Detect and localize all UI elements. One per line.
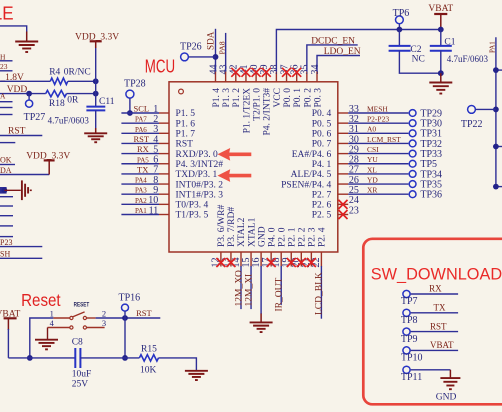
svg-text:PA4: PA4 [135,177,147,185]
svg-text:P4. 0: P4. 0 [267,227,277,247]
pin 30 [338,142,348,144]
wire VCC to VBAT rail [276,30,440,72]
resistor R18 [46,90,67,96]
no-ERC mark pin 24 [339,200,348,209]
wire DCDC_EN [307,45,358,72]
wire [496,69,502,71]
svg-text:P3. 7/RD#: P3. 7/RD# [227,207,237,247]
arrow (RXD highlight) [218,148,252,161]
svg-text:P0. 0: P0. 0 [283,88,293,108]
pin 26 [338,183,348,185]
junction [493,184,499,190]
pin 10 [159,203,169,205]
wire [398,24,400,30]
pin 41 [245,72,247,82]
pin 6 [159,163,169,165]
svg-text:P2-P23: P2-P23 [367,115,389,124]
pin 12 [220,252,222,267]
wire [0,246,42,248]
wire [0,205,13,207]
wire SDA [215,29,217,72]
svg-text:P0. 7: P0. 7 [312,140,332,150]
test point TP34 [409,171,416,178]
wire [476,108,496,110]
svg-text:P0. 2: P0. 2 [303,88,313,108]
wire PA7 [121,122,159,124]
svg-text:TP26: TP26 [180,42,202,53]
wire XR [348,193,408,195]
svg-text:SCL: SCL [134,104,150,114]
pin 19 [290,252,292,267]
svg-text:R4: R4 [49,67,60,77]
no-ERC mark pin 39 [262,68,271,77]
svg-text:TP11: TP11 [401,372,422,383]
svg-text:P2. 2: P2. 2 [298,227,308,247]
svg-text:P4. 2/INT3#: P4. 2/INT3# [263,88,273,136]
test point TP26 [181,53,189,61]
pin 5 [159,153,169,155]
svg-text:22: 22 [311,258,322,268]
svg-text:P23: P23 [0,238,12,247]
pin 1 marker [179,89,184,94]
no-ERC mark pin 13 [226,258,235,267]
svg-text:P1. 7: P1. 7 [176,130,196,140]
wire [189,56,216,58]
pin 14 [240,252,242,267]
svg-text:C1: C1 [444,38,455,48]
svg-text:12M_XO: 12M_XO [234,270,244,307]
wire [47,328,49,340]
pin 9 [159,193,169,195]
no-ERC mark pin 12 [216,258,225,267]
capacitor C11 [86,106,105,108]
svg-text:4.7uF/0603: 4.7uF/0603 [48,115,90,125]
test point TP8 [403,309,410,316]
svg-text:P2. 4: P2. 4 [318,227,328,247]
wire MESH [348,112,408,114]
svg-text:NC: NC [412,55,425,65]
svg-text:2: 2 [102,308,106,318]
wire SCL [121,112,159,114]
svg-text:XL: XL [367,165,377,174]
wire RST [121,142,159,144]
pin 36 [296,72,298,82]
junction [127,110,133,116]
test point TP22 [468,106,476,114]
svg-text:VCC: VCC [273,88,283,108]
no-ERC mark pin 19 [287,258,296,267]
svg-text:VBAT: VBAT [430,340,454,350]
svg-text:DCDC_EN: DCDC_EN [311,36,355,46]
pin 13 [230,252,232,267]
capacitor C2 [389,45,411,47]
test point TP30 [409,120,416,127]
wire [68,80,96,82]
svg-text:OK: OK [0,156,12,165]
wire [0,26,27,32]
wire LCD_BLK [320,266,322,319]
wire [0,101,13,103]
junction [493,67,499,73]
no-ERC mark pin 37 [282,68,291,77]
svg-text:PA1: PA1 [135,207,147,215]
svg-text:PA5: PA5 [137,156,149,164]
test point TP32 [409,140,416,147]
wire [0,225,13,227]
capacitor C1 [430,45,452,47]
junction [493,144,499,150]
pin 35 [306,72,308,82]
wire IR_OUT [280,266,282,305]
pin 11 [159,214,169,216]
svg-text:10uF: 10uF [72,370,92,380]
no-ERC mark pin 17 [267,258,276,267]
svg-text:P4. 3/INT2#: P4. 3/INT2# [176,160,224,170]
wire [7,329,9,358]
pin 37 [286,72,288,82]
resistor R15 [139,355,158,361]
svg-text:TX: TX [434,303,446,313]
ground [185,370,208,372]
pin 32 [338,122,348,124]
pin 1 [53,317,69,319]
wire RX [411,293,459,295]
junction [26,91,32,97]
test point TP35 [409,181,416,188]
wire [0,236,13,238]
wire PA6 [121,132,159,134]
svg-text:PSEN#/P4. 4: PSEN#/P4. 4 [281,180,331,190]
wire YU [348,163,408,165]
svg-text:P0. 1: P0. 1 [293,88,303,108]
pin 44 [215,72,217,82]
wire [440,30,442,46]
test point TP27 [26,100,33,107]
svg-text:R15: R15 [141,345,157,355]
wire [0,142,15,144]
svg-text:TP16: TP16 [119,293,141,304]
wire A0 [348,132,408,134]
svg-text:LCM_RST: LCM_RST [367,135,401,144]
svg-text:C8: C8 [72,338,83,348]
svg-text:TP7: TP7 [401,296,418,307]
wire RST [96,317,161,319]
svg-text:YD: YD [367,175,378,184]
svg-text:P1. 1/T2EX: P1. 1/T2EX [242,88,252,134]
svg-text:1: 1 [50,308,54,318]
svg-text:P0. 6: P0. 6 [312,130,332,140]
no-ERC mark pin 20 [297,258,306,267]
svg-text:RST: RST [134,134,150,144]
wire RX [121,153,159,155]
test point TP33 [409,150,416,157]
svg-text:P2. 1: P2. 1 [287,227,297,247]
ground [35,339,58,341]
wire P2-P23 [348,122,408,124]
wire 12M_XO [240,266,242,309]
wire YD [348,183,408,185]
svg-text:P2. 6: P2. 6 [312,201,332,211]
wire PA1 [495,37,497,186]
wire 12M_XI [250,266,252,309]
wire [4,189,20,191]
svg-text:TP22: TP22 [461,119,483,130]
pin 2 [159,122,169,124]
svg-text:XR: XR [367,186,377,195]
pin 34 [316,72,318,82]
svg-text:10K: 10K [140,366,157,376]
svg-text:P1. 3: P1. 3 [222,88,232,108]
ground [95,128,97,133]
svg-text:P0. 4: P0. 4 [312,109,332,119]
pin 16 [260,252,262,267]
svg-text:23: 23 [349,205,359,216]
test point TP7 [403,290,410,297]
svg-text:PA7: PA7 [135,116,147,124]
wire [496,146,502,148]
pin 18 [280,252,282,267]
no-ERC mark pin 41 [241,68,250,77]
wire [129,98,131,113]
test point TP5 [409,160,416,167]
svg-text:P1. 6: P1. 6 [176,119,196,129]
wire [0,70,13,72]
svg-text:0R/NC: 0R/NC [64,67,91,77]
svg-text:Reset: Reset [21,291,61,310]
no-ERC mark pin 42 [231,68,240,77]
contact [70,316,73,319]
svg-text:EA#/P4. 6: EA#/P4. 6 [292,150,332,160]
pin 38 [275,72,277,82]
svg-text:LCD_BLK: LCD_BLK [315,272,325,315]
connector frame SW_DOWNLOAD [363,239,502,404]
wire VBAT [411,349,459,351]
wire [496,186,502,188]
contact [83,326,86,329]
ground [260,314,262,323]
svg-text:LDO_EN: LDO_EN [324,47,361,57]
wire 1.8V [0,80,50,82]
svg-text:12M_XI: 12M_XI [244,274,254,307]
wire [0,60,13,62]
wire PA3 [121,193,159,195]
pin 39 [265,72,267,82]
svg-text:MCU: MCU [145,56,175,77]
arrow (TXD highlight) [218,169,252,182]
test point TP29 [409,110,416,117]
svg-text:TX: TX [137,164,148,174]
svg-text:VBAT: VBAT [428,4,453,14]
svg-text:R18: R18 [49,99,65,109]
junction [438,70,444,76]
svg-text:25V: 25V [72,380,89,390]
svg-text:RST: RST [136,308,152,318]
svg-text:MESH: MESH [367,104,388,113]
wire LCM_RST [348,142,408,144]
svg-text:4: 4 [50,318,55,328]
wire [28,94,30,101]
wire [398,30,400,46]
junction [93,91,99,97]
wire [95,110,97,128]
junction [27,355,33,361]
wire PA2 [121,203,159,205]
svg-text:LE: LE [0,3,14,24]
wire [0,164,15,166]
wire GND [260,266,262,314]
junction [122,315,128,321]
wire [0,257,42,259]
svg-text:P3. 6/WR#: P3. 6/WR# [217,205,227,247]
svg-text:PA2: PA2 [135,197,147,205]
pin 4 [48,327,70,329]
wire PA8 [225,33,227,72]
junction [122,355,128,361]
svg-text:A: A [0,92,6,101]
mcu U1 box [169,82,338,252]
junction [397,27,403,33]
svg-text:TP10: TP10 [401,353,423,364]
junction [493,107,499,113]
pin 7 [159,173,169,175]
pin 1 [159,112,169,114]
wire [399,51,440,73]
svg-text:P2. 7: P2. 7 [312,190,332,200]
pin 8 [159,183,169,185]
test point TP16 [122,304,129,311]
wire [80,357,139,359]
svg-text:P2. 0: P2. 0 [277,227,287,247]
svg-text:RX: RX [137,144,149,154]
wire [0,174,49,176]
ground GND [449,370,451,378]
pin 25 [338,193,348,195]
wire PA4 [121,183,159,185]
wire [0,196,13,198]
svg-text:PA1: PA1 [489,41,497,53]
pin 42 [235,72,237,82]
ground (rotated) [21,180,23,200]
capacitor C8 [74,348,76,368]
pin 3 [87,327,105,329]
wire [159,358,197,371]
svg-text:TXD/P3. 1: TXD/P3. 1 [176,170,218,180]
pad [0,187,7,194]
wire [0,107,13,109]
pin 33 [338,112,348,114]
pin 43 [225,72,227,82]
no-ERC mark pin 40 [252,68,261,77]
wire [0,215,13,217]
junction [438,27,444,33]
test point TP10 [403,347,410,354]
no-ERC mark pin 23 [339,210,348,219]
wire VDD [0,93,46,95]
svg-text:P1. 2: P1. 2 [232,88,242,108]
test point TP11 [403,366,410,373]
pin 28 [338,163,348,165]
svg-text:T2/P1. 0: T2/P1. 0 [253,88,263,121]
wire [8,357,75,359]
wire [0,135,42,137]
svg-text:INT0#/P3. 2: INT0#/P3. 2 [176,180,224,190]
junction [2,187,8,193]
wire LDO_EN [317,56,360,72]
pin 31 [338,132,348,134]
wire XL [348,173,408,175]
wire [0,114,13,116]
svg-text:PA6: PA6 [135,126,147,134]
pin 21 [310,252,312,267]
svg-text:P1. 4: P1. 4 [212,88,222,108]
svg-text:XTAL2: XTAL2 [237,217,247,247]
svg-text:C11: C11 [99,97,115,107]
junction [93,78,99,84]
pin 40 [255,72,257,82]
svg-text:T0/P3. 4: T0/P3. 4 [176,201,209,211]
svg-text:P0. 3: P0. 3 [313,88,323,108]
wire PA1 [121,214,159,216]
svg-text:GND: GND [436,393,457,403]
svg-text:PA8: PA8 [218,41,227,54]
svg-text:TP36: TP36 [420,190,442,201]
contact [70,326,73,329]
svg-text:3: 3 [102,318,106,328]
svg-text:TP28: TP28 [124,78,146,89]
svg-text:GND: GND [257,226,267,247]
wire TX [121,173,159,175]
test point TP28 [126,90,134,98]
svg-text:XTAL1: XTAL1 [247,217,257,247]
wire RST [411,331,459,333]
svg-text:T1/P3. 5: T1/P3. 5 [176,211,209,221]
pin 29 [338,153,348,155]
svg-text:RESET: RESET [74,302,90,309]
svg-text:YU: YU [367,155,378,164]
ground [440,73,442,82]
pin 27 [338,173,348,175]
svg-text:RXD/P3. 0: RXD/P3. 0 [176,150,218,160]
svg-text:RX: RX [429,284,442,294]
wire [30,318,54,358]
svg-text:SW_DOWNLOAD: SW_DOWNLOAD [371,265,502,283]
svg-text:4.7uF/0603: 4.7uF/0603 [447,54,489,64]
svg-text:IR_OUT: IR_OUT [275,278,285,312]
wire CSI [348,153,408,155]
svg-text:DA: DA [0,166,12,175]
pin 20 [300,252,302,267]
svg-text:INT1#/P3. 3: INT1#/P3. 3 [176,190,224,200]
svg-text:A0: A0 [367,125,376,134]
svg-text:SDA: SDA [206,31,216,50]
svg-text:PA3: PA3 [135,187,147,195]
svg-text:TP27: TP27 [24,112,46,123]
svg-text:RST: RST [430,321,447,331]
no-ERC mark pin 36 [292,68,301,77]
pin 2 [87,317,96,319]
pin 23 [338,214,348,216]
test point TP36 [409,191,416,198]
svg-text:TP9: TP9 [401,334,418,345]
svg-text:34: 34 [310,65,321,75]
resistor R4 [50,78,68,84]
pin 17 [270,252,272,267]
no-ERC mark pin 21 [307,258,316,267]
svg-text:0R: 0R [67,96,79,106]
test point TP6 [396,16,404,24]
wire [95,48,97,107]
svg-text:SH: SH [0,250,10,259]
